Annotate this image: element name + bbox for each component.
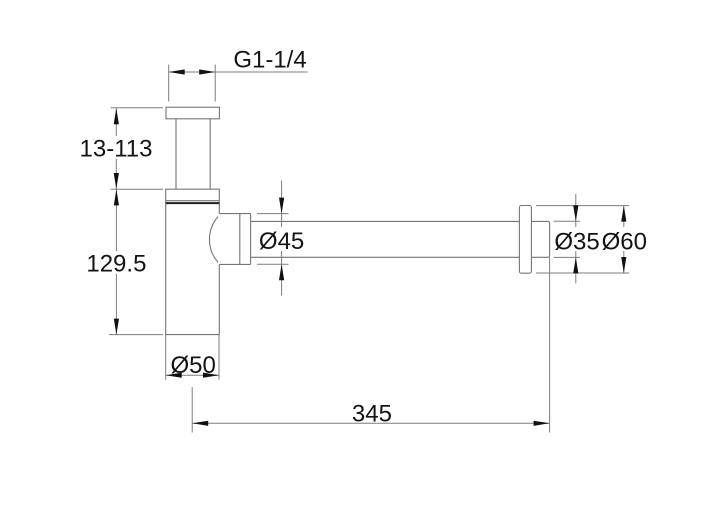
top flange bbox=[166, 107, 219, 119]
arrow D50 right bbox=[203, 373, 219, 378]
dim shared ext line bbox=[111, 188, 163, 190]
arrow 13-113 up bbox=[114, 108, 119, 124]
svg-text:129.5: 129.5 bbox=[86, 251, 146, 278]
horizontal pipe bbox=[251, 221, 520, 257]
dim D35 ext lines bbox=[554, 221, 581, 257]
socket arc bbox=[209, 217, 218, 263]
arrow D60 down bbox=[621, 257, 626, 273]
arrow D45 bottom bbox=[279, 264, 284, 280]
arrow D60 up bbox=[621, 206, 626, 222]
arrow 129.5 up bbox=[114, 189, 119, 205]
outlet socket bbox=[219, 214, 250, 265]
dim 13-113 line bbox=[115, 108, 117, 189]
cap joint line bbox=[166, 200, 220, 202]
dim G1-1/4 ext lines bbox=[169, 65, 216, 102]
arrow 129.5 down bbox=[114, 319, 119, 335]
dim D50 line bbox=[166, 374, 219, 376]
arrow 13-113 down bbox=[114, 173, 119, 189]
arrow D35 bottom bbox=[573, 257, 578, 273]
arrow D45 top bbox=[279, 198, 284, 214]
dim D35 line bbox=[575, 194, 577, 283]
dim D60 line bbox=[623, 206, 625, 273]
dim D45 line bbox=[281, 181, 283, 296]
wall flange bbox=[519, 206, 531, 274]
svg-text:Ø45: Ø45 bbox=[259, 228, 304, 255]
pipe right end bbox=[531, 221, 549, 257]
dim 345 ext lines bbox=[192, 257, 549, 432]
svg-text:Ø50: Ø50 bbox=[171, 352, 216, 379]
arrow G right bbox=[199, 69, 215, 74]
arrow 345 left bbox=[192, 421, 208, 426]
svg-text:G1-1/4: G1-1/4 bbox=[233, 47, 306, 74]
dim D60 ext lines bbox=[536, 206, 629, 273]
dim 129.5 bottom ext line bbox=[109, 334, 163, 336]
vertical inlet pipe bbox=[176, 119, 210, 189]
svg-text:13-113: 13-113 bbox=[80, 136, 153, 163]
gasket thick line bbox=[166, 202, 220, 204]
dim D45 ext lines bbox=[257, 214, 289, 265]
text masks bbox=[84, 136, 648, 274]
svg-text:345: 345 bbox=[352, 401, 392, 428]
arrow D50 left bbox=[166, 373, 182, 378]
svg-text:Ø35: Ø35 bbox=[554, 228, 599, 255]
arrow D35 top bbox=[573, 205, 578, 221]
bottle body bbox=[166, 189, 220, 334]
arrow 345 right bbox=[534, 421, 550, 426]
arrow G left bbox=[169, 69, 185, 74]
dim 129.5 line bbox=[115, 189, 117, 334]
svg-text:Ø60: Ø60 bbox=[602, 228, 647, 255]
dim 345 line bbox=[192, 422, 549, 424]
dim D50 ext lines bbox=[166, 335, 219, 380]
dim G1-1/4 line bbox=[169, 71, 308, 73]
dim 13-113 ext line bbox=[111, 107, 163, 109]
